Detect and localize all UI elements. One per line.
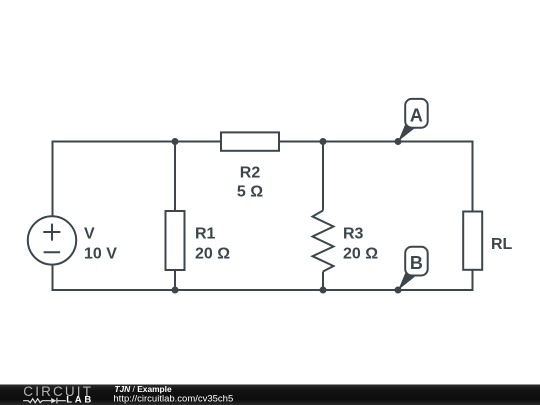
svg-text:5 Ω: 5 Ω bbox=[237, 184, 263, 201]
svg-text:V: V bbox=[84, 226, 95, 243]
svg-text:http://circuitlab.com/cv35ch5: http://circuitlab.com/cv35ch5 bbox=[113, 394, 233, 405]
svg-text:R1: R1 bbox=[195, 226, 216, 243]
svg-text:LAB: LAB bbox=[66, 395, 94, 405]
svg-text:TJN / Example: TJN / Example bbox=[114, 384, 172, 394]
svg-text:R3: R3 bbox=[343, 226, 364, 243]
svg-text:20 Ω: 20 Ω bbox=[343, 245, 378, 262]
svg-text:RL: RL bbox=[491, 236, 513, 253]
svg-text:B: B bbox=[410, 253, 423, 273]
svg-text:R2: R2 bbox=[240, 164, 261, 181]
svg-text:20 Ω: 20 Ω bbox=[195, 245, 230, 262]
svg-text:10 V: 10 V bbox=[84, 245, 117, 262]
svg-text:A: A bbox=[410, 105, 423, 125]
